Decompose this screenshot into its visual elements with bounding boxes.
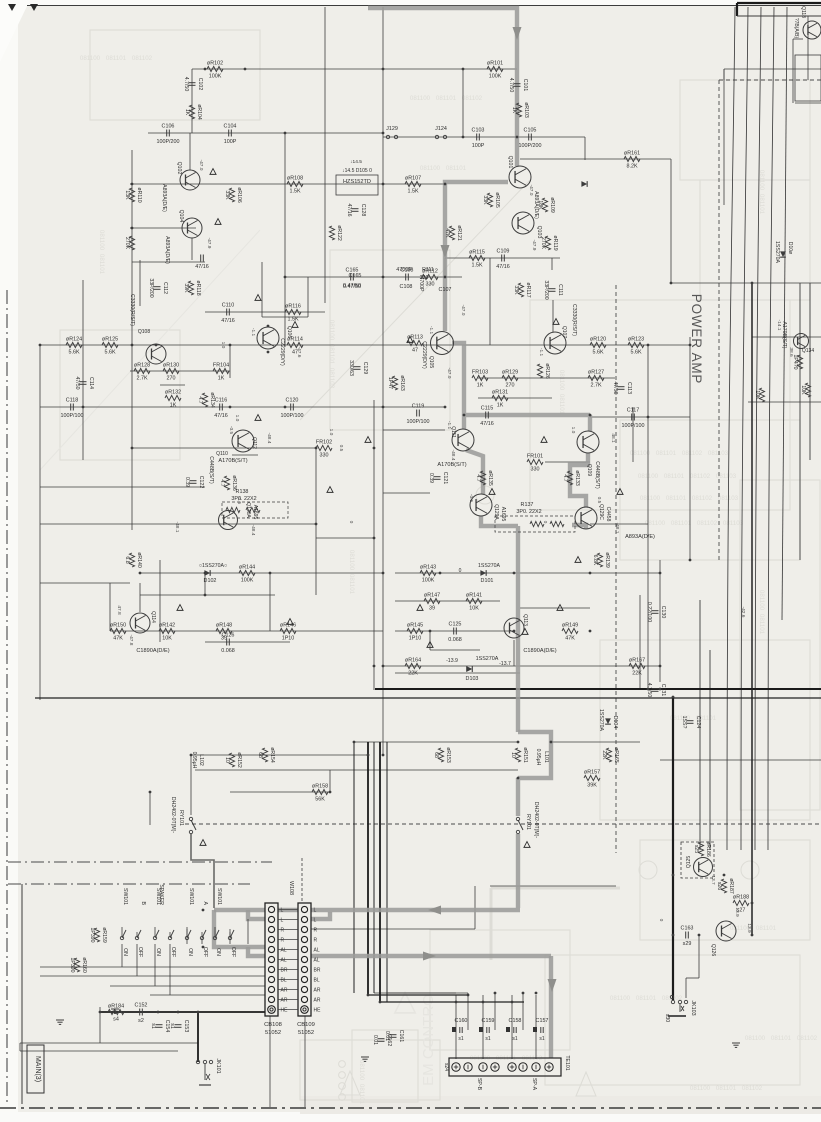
svg-text:Q101: Q101 — [507, 156, 513, 169]
node — [462, 68, 465, 71]
capacitor C108 — [401, 268, 414, 281]
wire right lower verticals — [700, 283, 810, 850]
svg-text:Q104: Q104 — [178, 210, 184, 223]
transistor Q101 — [509, 166, 531, 188]
svg-text:øR116: øR116 — [285, 304, 301, 310]
thick path block jog AL — [248, 947, 551, 956]
svg-text:1.0: 1.0 — [328, 429, 334, 436]
svg-text:Q102: Q102 — [176, 162, 182, 175]
node — [467, 994, 470, 997]
wire — [659, 560, 661, 682]
wire — [82, 280, 84, 460]
svg-text:øR148: øR148 — [216, 623, 232, 629]
label voltage — [266, 433, 272, 444]
node — [689, 559, 692, 562]
wire — [375, 688, 821, 690]
wire — [520, 607, 590, 609]
wire bundle — [727, 7, 735, 850]
resistor R126 — [537, 363, 550, 379]
svg-text:081101: 081101 — [636, 995, 657, 1002]
svg-text:øR152: øR152 — [236, 752, 242, 768]
svg-text:081101: 081101 — [446, 165, 467, 172]
node — [513, 630, 516, 633]
capacitor C129 — [348, 360, 368, 376]
svg-text:R: R — [281, 928, 285, 934]
svg-text:081102: 081102 — [697, 520, 718, 527]
wire — [324, 7, 326, 303]
switch section border — [21, 884, 23, 1104]
label voltage — [740, 607, 746, 618]
wire — [522, 993, 524, 1030]
svg-text:MAIN(3): MAIN(3) — [34, 1056, 41, 1082]
svg-text:-1.1: -1.1 — [250, 328, 256, 337]
svg-text:øR121: øR121 — [456, 225, 462, 241]
svg-text:A893A(D/E): A893A(D/E) — [161, 184, 167, 212]
svg-text:4.7/50: 4.7/50 — [646, 683, 652, 698]
svg-text:C153: C153 — [183, 1020, 189, 1033]
node — [511, 1001, 514, 1004]
node — [482, 1001, 485, 1004]
svg-text:AL: AL — [314, 948, 320, 954]
wire — [489, 258, 491, 345]
wire — [354, 741, 518, 743]
svg-text:SW101: SW101 — [188, 888, 194, 905]
label — [150, 611, 156, 623]
resistor R140 — [124, 552, 142, 568]
svg-text:081102: 081102 — [682, 450, 703, 457]
resistor R108 — [287, 176, 303, 195]
wire — [40, 406, 445, 408]
svg-text:HE: HE — [281, 1008, 289, 1014]
svg-text:C125: C125 — [449, 622, 462, 628]
svg-text:-48.4: -48.4 — [450, 450, 456, 461]
wire — [660, 759, 821, 761]
warning mark — [177, 605, 183, 611]
svg-text:4.7: 4.7 — [197, 396, 203, 403]
svg-text:33P/200: 33P/200 — [543, 280, 549, 299]
wire — [262, 316, 308, 318]
svg-text:CB108: CB108 — [264, 1022, 282, 1028]
svg-text:1.5K: 1.5K — [407, 189, 418, 195]
wire — [149, 792, 151, 825]
wire — [40, 582, 130, 584]
wire — [130, 227, 196, 229]
svg-text:C2229(D/Y): C2229(D/Y) — [279, 338, 285, 366]
label — [571, 304, 577, 336]
svg-text:100K: 100K — [489, 74, 502, 80]
node — [284, 276, 287, 279]
svg-text:1P10: 1P10 — [409, 636, 422, 642]
label — [208, 456, 214, 484]
svg-text:Q108: Q108 — [138, 329, 150, 335]
svg-text:6.8K: 6.8K — [592, 555, 598, 566]
wire — [584, 137, 586, 160]
svg-text:5.6K: 5.6K — [630, 350, 641, 356]
svg-text:C119: C119 — [412, 404, 425, 410]
switch stub wires — [122, 919, 248, 995]
wire — [552, 300, 554, 332]
wire — [383, 665, 660, 667]
svg-text:33K: 33K — [224, 190, 230, 200]
resistor R103 — [511, 102, 529, 118]
svg-text:øR139: øR139 — [604, 552, 610, 568]
svg-text:L: L — [314, 908, 317, 914]
node — [517, 741, 520, 744]
svg-text:47.8: 47.8 — [116, 605, 122, 615]
svg-text:C158: C158 — [509, 1018, 522, 1024]
resistor R129 — [502, 370, 518, 389]
transistor Q107 — [544, 332, 566, 354]
capacitor C122 — [184, 476, 204, 489]
resistor R132 — [165, 390, 181, 409]
svg-text:C121: C121 — [442, 472, 448, 485]
resistor R125 — [102, 337, 118, 356]
svg-text:4.7: 4.7 — [475, 474, 481, 481]
svg-text:081102: 081102 — [692, 495, 713, 502]
svg-text:081100: 081100 — [328, 320, 335, 341]
resistor R150 — [110, 623, 126, 642]
wire — [639, 595, 641, 690]
resistor R131 — [492, 390, 508, 409]
transistor Q105 — [431, 332, 454, 355]
node — [367, 994, 370, 997]
label voltage — [228, 426, 234, 435]
wire — [195, 769, 518, 771]
svg-text:47/16: 47/16 — [346, 204, 352, 217]
label — [686, 856, 692, 868]
node — [444, 406, 447, 409]
svg-text:081101: 081101 — [771, 1035, 792, 1042]
svg-text:D104: D104 — [612, 716, 618, 729]
wire — [189, 133, 191, 170]
svg-text:330: 330 — [420, 275, 429, 281]
label — [0, 0, 1, 1]
svg-text:13.9: 13.9 — [734, 907, 740, 917]
svg-text:C114: C114 — [88, 377, 94, 389]
svg-text:68: 68 — [257, 752, 263, 758]
label voltage — [128, 635, 134, 646]
svg-text:C113: C113 — [626, 382, 632, 394]
svg-text:-47.0: -47.0 — [528, 185, 534, 196]
node — [269, 572, 272, 575]
svg-text:8.2K: 8.2K — [626, 164, 637, 170]
svg-text:47/50: 47/50 — [612, 382, 618, 395]
ground — [732, 1043, 740, 1047]
svg-text:A893A(D/E): A893A(D/E) — [625, 534, 655, 540]
wire — [671, 282, 821, 284]
svg-text:s2: s2 — [138, 1018, 144, 1024]
wire — [229, 345, 231, 378]
svg-text:øR161: øR161 — [624, 151, 640, 157]
switch labels — [122, 884, 236, 957]
wire — [670, 159, 672, 283]
resistor R142 — [159, 623, 175, 642]
svg-text:øR141: øR141 — [466, 593, 482, 599]
svg-text:10: 10 — [224, 757, 230, 763]
svg-text:Q112: Q112 — [251, 437, 257, 449]
svg-text:-48.4: -48.4 — [266, 433, 272, 444]
wire — [284, 133, 286, 347]
capacitor C131 — [646, 683, 666, 698]
node — [39, 344, 42, 347]
transistor Q125 box — [681, 842, 714, 878]
transistor Q134 — [794, 334, 809, 349]
wire — [315, 448, 317, 595]
label voltage — [450, 450, 456, 461]
svg-text:Q118: Q118 — [800, 6, 806, 18]
resistor R121 — [444, 225, 462, 241]
svg-text:0.5: 0.5 — [596, 497, 602, 504]
label voltage — [198, 160, 204, 171]
svg-text:↓14.5 D105 0: ↓14.5 D105 0 — [342, 168, 372, 174]
capacitor C163 — [681, 926, 694, 948]
capacitor C109 — [496, 249, 510, 271]
svg-text:C118: C118 — [66, 398, 79, 404]
capacitor C102 — [183, 77, 203, 92]
label voltage — [542, 521, 548, 524]
svg-text:øR128: øR128 — [134, 363, 150, 369]
svg-text:-13.7: -13.7 — [499, 661, 511, 667]
svg-text:øR101: øR101 — [487, 61, 503, 67]
svg-text:C117: C117 — [627, 408, 640, 414]
page top edge line — [27, 5, 821, 7]
svg-text:081100: 081100 — [420, 165, 441, 172]
resistor R136 — [219, 475, 237, 491]
resistor R127 — [588, 370, 604, 389]
label — [800, 6, 806, 18]
chain border left edge — [6, 290, 8, 1105]
capacitor C128 — [346, 204, 366, 217]
warning mark — [553, 319, 559, 325]
svg-text:s30: s30 — [664, 1014, 670, 1022]
node — [751, 282, 754, 285]
wire — [467, 993, 469, 1030]
wire — [490, 885, 616, 887]
connector CB109 — [297, 903, 321, 1036]
top-right corner frame — [737, 3, 821, 16]
wire — [520, 158, 671, 160]
svg-text:081100: 081100 — [745, 1035, 766, 1042]
svg-text:SW101: SW101 — [216, 888, 222, 905]
resistor R105 — [482, 192, 500, 208]
warning mark — [365, 437, 371, 443]
node — [190, 754, 193, 757]
wire — [380, 1001, 524, 1003]
svg-text:1.5K: 1.5K — [471, 263, 482, 269]
label — [586, 464, 592, 476]
node — [353, 741, 356, 744]
wire — [511, 995, 513, 1059]
svg-text:s25: s25 — [693, 845, 699, 853]
dashed vertical right upper — [719, 80, 821, 560]
svg-text:øR123: øR123 — [628, 337, 644, 343]
wire — [232, 454, 258, 456]
resistor R158 — [312, 784, 328, 803]
node — [723, 874, 726, 877]
terminal strip TE101 — [443, 1055, 570, 1090]
svg-text:s1: s1 — [485, 1036, 491, 1042]
label — [418, 276, 424, 292]
svg-text:øR129: øR129 — [502, 370, 518, 376]
speaker bus vertical 4 — [379, 742, 381, 1002]
transistor Q129A — [470, 494, 492, 516]
svg-text:1SS270A: 1SS270A — [476, 656, 499, 662]
node — [315, 523, 318, 526]
wire — [261, 262, 263, 317]
label — [605, 507, 611, 522]
node — [698, 934, 701, 937]
resistor R110 — [124, 187, 142, 202]
wire — [647, 345, 649, 690]
svg-text:4.7: 4.7 — [219, 479, 225, 486]
svg-text:-48.1: -48.1 — [174, 522, 180, 533]
label voltage — [234, 415, 240, 422]
node — [672, 696, 675, 699]
wire — [130, 183, 445, 185]
inductor L102 — [191, 752, 204, 769]
capacitor C158 — [506, 1018, 521, 1042]
svg-text:-14.1: -14.1 — [776, 320, 782, 331]
resistor FR101 — [527, 454, 543, 473]
node — [131, 344, 134, 347]
svg-text:10K: 10K — [754, 390, 760, 400]
wire — [197, 1012, 199, 1060]
resistor R113 — [407, 335, 423, 354]
svg-text:1SS270A: 1SS270A — [774, 241, 780, 263]
resistor R159 — [89, 927, 107, 943]
wire — [159, 560, 161, 642]
label voltage — [468, 494, 474, 503]
svg-text:Q114: Q114 — [150, 611, 156, 623]
resistor R124 — [66, 337, 82, 356]
wire — [382, 7, 384, 755]
transistor Q111 — [452, 429, 474, 451]
wire — [99, 1007, 101, 1043]
svg-text:081102: 081102 — [797, 1035, 818, 1042]
node — [670, 282, 673, 285]
capacitor C116 — [214, 398, 228, 420]
svg-text:081101: 081101 — [558, 394, 565, 415]
resistor R123 — [628, 337, 644, 356]
wire — [192, 68, 517, 70]
warning mark — [327, 487, 333, 493]
transistor Q106 — [257, 327, 279, 349]
label voltage — [710, 875, 716, 885]
label — [350, 159, 362, 165]
svg-text:47/16: 47/16 — [480, 421, 494, 427]
wire — [191, 754, 368, 756]
svg-text:33P/200: 33P/200 — [148, 278, 154, 297]
svg-text:Q126: Q126 — [710, 944, 716, 956]
wire — [478, 397, 552, 399]
node — [131, 227, 134, 230]
label — [216, 451, 228, 457]
node — [329, 791, 332, 794]
node — [139, 572, 142, 575]
resistor R134 — [197, 392, 215, 408]
svg-text:øR187: øR187 — [728, 878, 734, 894]
node — [382, 183, 385, 186]
warning mark — [287, 619, 293, 625]
svg-text:C3330(R/S/T): C3330(R/S/T) — [129, 294, 135, 326]
svg-text:0.5: 0.5 — [338, 445, 344, 452]
svg-text:-0.5: -0.5 — [468, 494, 474, 503]
svg-text:330/63: 330/63 — [348, 360, 354, 376]
svg-text:AL: AL — [281, 948, 287, 954]
svg-text:FR102: FR102 — [316, 440, 332, 446]
svg-text:-47.8: -47.8 — [128, 635, 134, 646]
wire — [395, 572, 660, 574]
speaker bus vertical 2 — [367, 742, 369, 995]
svg-text:øR105: øR105 — [494, 192, 500, 208]
svg-text:270K: 270K — [124, 237, 130, 250]
label voltage — [428, 326, 434, 335]
transistor Q114 — [130, 613, 150, 633]
wire — [40, 486, 205, 488]
wire — [513, 640, 515, 666]
svg-text:RY101: RY101 — [525, 814, 531, 830]
resistor R114 — [287, 337, 303, 356]
warning mark — [417, 605, 423, 611]
resistor R161 — [624, 151, 640, 170]
svg-text:C126: C126 — [222, 633, 235, 639]
label voltage — [614, 523, 620, 534]
svg-text:øR120: øR120 — [590, 337, 606, 343]
label voltage — [531, 240, 537, 251]
svg-text:C108: C108 — [400, 284, 413, 290]
label — [161, 184, 167, 212]
warning mark — [407, 337, 413, 343]
wire bundle — [782, 7, 787, 620]
svg-text:-1.1: -1.1 — [428, 326, 434, 335]
wire — [140, 572, 383, 574]
diode D104 — [598, 709, 618, 731]
svg-text:CB109: CB109 — [297, 1022, 315, 1028]
resistor R146 — [280, 623, 296, 642]
svg-text:13.9: 13.9 — [746, 923, 752, 933]
node — [517, 777, 520, 780]
capacitor C112 — [148, 278, 168, 297]
wire — [445, 257, 560, 259]
diode D101 — [459, 563, 501, 584]
transistor Q109 — [577, 431, 599, 453]
svg-text:øR188: øR188 — [733, 895, 749, 901]
label voltage — [328, 429, 334, 436]
wire — [130, 370, 230, 372]
svg-text:s24: s24 — [443, 1063, 449, 1071]
node — [149, 791, 152, 794]
wire — [807, 16, 809, 80]
svg-text:øR110: øR110 — [136, 187, 142, 202]
svg-text:øR153: øR153 — [445, 747, 451, 763]
svg-text:10K: 10K — [162, 636, 172, 642]
thick path Q111 down — [466, 450, 483, 494]
thick path arrow 2 — [441, 245, 450, 258]
svg-text:081101: 081101 — [436, 95, 457, 102]
svg-text:0.39: 0.39 — [428, 473, 434, 483]
svg-text:081101: 081101 — [328, 344, 335, 365]
svg-text:48.1: 48.1 — [610, 433, 616, 443]
svg-text:Q134: Q134 — [802, 348, 814, 354]
svg-text:081100: 081100 — [80, 55, 101, 62]
svg-text:081100: 081100 — [558, 370, 565, 391]
svg-text:0.39: 0.39 — [184, 477, 190, 487]
node — [516, 136, 519, 139]
svg-text:100P/100: 100P/100 — [406, 419, 429, 425]
svg-text:RY101: RY101 — [178, 810, 184, 826]
wire — [191, 69, 193, 133]
resistor R157 — [584, 770, 600, 789]
